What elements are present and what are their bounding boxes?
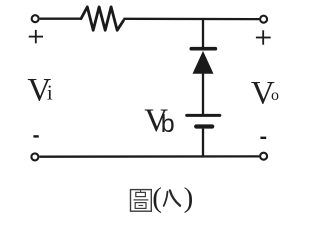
svg-text:b: b bbox=[161, 110, 175, 138]
diode D1 cathode bar bbox=[191, 47, 215, 51]
terminal top-left bbox=[32, 15, 39, 22]
plus label left bbox=[29, 30, 43, 43]
terminal bottom-right bbox=[260, 153, 267, 160]
label Vb bbox=[144, 103, 175, 139]
terminal top-right bbox=[260, 16, 267, 23]
battery Vb positive plate (long) bbox=[187, 114, 220, 117]
diode D1 anode triangle bbox=[193, 51, 214, 74]
wire battery to bottom bbox=[202, 129, 204, 157]
caption character 八 (drawn) bbox=[164, 190, 180, 206]
wire branch upper (node to diode) bbox=[202, 19, 204, 48]
minus label right bbox=[260, 137, 266, 139]
svg-text:(: ( bbox=[152, 182, 162, 214]
wire bottom bbox=[39, 155, 259, 158]
svg-text:o: o bbox=[271, 87, 279, 104]
wire top-left bbox=[40, 18, 82, 20]
caption character 圖 (drawn) bbox=[131, 190, 152, 212]
terminal bottom-left bbox=[31, 153, 38, 160]
svg-text:i: i bbox=[47, 81, 53, 105]
wire top-right bbox=[123, 18, 259, 21]
plus label right bbox=[256, 30, 271, 44]
svg-text:): ) bbox=[184, 182, 194, 214]
minus label left bbox=[33, 135, 38, 137]
battery Vb negative plate (short) bbox=[196, 124, 212, 128]
wire diode to battery bbox=[202, 74, 204, 115]
label Vi bbox=[27, 72, 53, 108]
resistor R bbox=[81, 7, 123, 30]
label Vo bbox=[251, 75, 279, 111]
